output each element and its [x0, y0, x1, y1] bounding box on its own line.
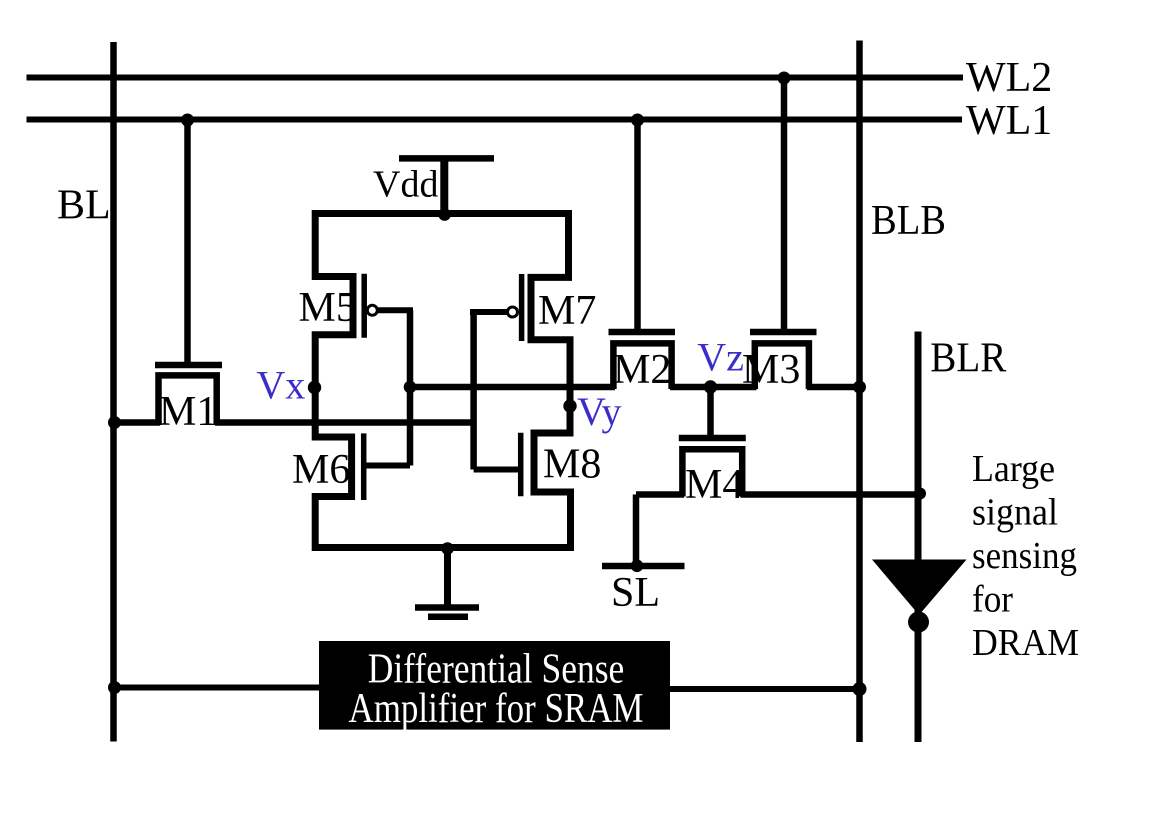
junction ground rail: [441, 542, 454, 555]
svg-text:SL: SL: [611, 570, 660, 616]
transistor M7 source lead from rail: [531, 210, 570, 391]
wire bottom left BL to box: [114, 685, 320, 691]
wire WL1 horizontal: [27, 117, 963, 123]
node Vx dot: [308, 381, 321, 394]
svg-text:WL2: WL2: [966, 55, 1052, 101]
svg-text:WL1: WL1: [966, 98, 1052, 144]
transistor M4 gate bar: [679, 435, 746, 441]
junction WL1 x M1 riser: [181, 114, 194, 127]
svg-text:BL: BL: [57, 182, 111, 228]
transistor M2 gate bar: [609, 329, 676, 335]
svg-text:for: for: [972, 579, 1013, 621]
wire SL stem vertical: [633, 495, 640, 567]
wire M6 gate lead: [363, 463, 410, 469]
wire M5/M6 gate riser: [407, 310, 414, 465]
junction WL2 x M3 riser: [778, 72, 791, 85]
transistor M2 channel: [613, 343, 671, 389]
transistor M3 gate bar: [750, 329, 817, 335]
svg-text:DRAM: DRAM: [972, 622, 1079, 664]
svg-text:BLR: BLR: [930, 336, 1006, 382]
wire BLB vertical: [856, 41, 863, 743]
ground bar 1: [415, 604, 479, 611]
wire M3 drain to BLB: [807, 384, 860, 391]
svg-text:M7: M7: [538, 288, 596, 334]
wire M2 gate riser from WL1: [634, 120, 641, 330]
wire M3 gate riser from WL2: [781, 78, 788, 330]
wire M5 gate lead: [378, 307, 414, 313]
node dot below triangle: [908, 612, 929, 633]
label box Differential Sense Amplifier for SRAM: [319, 641, 670, 730]
transistor M1 gate bar: [155, 362, 222, 368]
svg-text:M2: M2: [613, 347, 671, 393]
svg-text:sensing: sensing: [972, 535, 1077, 577]
svg-text:M8: M8: [543, 441, 601, 487]
wire bottom right box to BLB: [670, 686, 860, 692]
wire M4 gate stem from node Vz: [707, 387, 714, 436]
svg-text:M4: M4: [685, 462, 743, 508]
node Vz dot: [704, 380, 717, 393]
bubble M7 gate: [508, 307, 518, 317]
transistor M7 gate bar: [519, 274, 525, 341]
svg-text:Vy: Vy: [577, 389, 621, 434]
transistor M6 gate bar: [361, 433, 367, 500]
svg-text:Large: Large: [972, 448, 1055, 490]
node dot latch left input on riser: [404, 381, 417, 394]
svg-text:M6: M6: [292, 447, 350, 493]
svg-text:M3: M3: [742, 347, 800, 393]
wire ground stem: [444, 548, 451, 609]
wire M7 gate lead: [470, 309, 508, 315]
transistor M5 gate bar: [361, 274, 367, 338]
node Vy dot: [563, 399, 576, 412]
svg-text:Amplifier for SRAM: Amplifier for SRAM: [349, 686, 644, 732]
transistor M4 channel: [682, 449, 742, 496]
wire Vdd stem: [440, 158, 448, 213]
wire M1 gate riser from WL1: [184, 120, 191, 362]
svg-text:Vx: Vx: [256, 363, 305, 408]
junction SL bar: [631, 560, 644, 573]
junction BLB x bottom wire: [853, 682, 867, 696]
wire latch top rail: [312, 210, 571, 217]
wire BLR vertical: [915, 332, 922, 743]
op-amp U1 large-signal sense amp triangle on BLR: [872, 560, 967, 616]
junction Vdd x rail: [438, 208, 451, 221]
wire node Vx horizontal M1 drain to gates of M7/M8: [215, 419, 474, 426]
junction BL x M1 lead: [108, 416, 121, 429]
svg-text:signal: signal: [972, 492, 1058, 534]
wire Vy vertical M7 drain to M8 drain: [534, 388, 571, 551]
wire latch bottom rail: [312, 544, 572, 551]
svg-text:Vz: Vz: [697, 335, 744, 380]
wire node A horizontal latch input to M2 source: [410, 384, 615, 391]
transistor M1 channel: [159, 375, 217, 425]
junction BL x bottom wire: [108, 681, 121, 694]
transistor M3 channel: [755, 343, 809, 389]
wire WL2 horizontal: [27, 75, 964, 81]
wire M4 drain lead to BLR: [741, 491, 919, 498]
wire SL terminal bar: [602, 563, 685, 570]
wire node Vz horizontal M2 drain to M3 source: [670, 384, 757, 391]
wire M8 gate lead: [474, 467, 519, 473]
svg-text:BLB: BLB: [871, 198, 946, 244]
wire node Vx horizontal BL to M1 source: [114, 419, 161, 426]
svg-text:M1: M1: [159, 389, 217, 435]
junction BLB x M3 lead: [853, 381, 866, 394]
junction WL1 x M2 riser: [631, 114, 644, 127]
svg-text:Vdd: Vdd: [373, 164, 438, 206]
wire Vdd terminal bar: [399, 155, 494, 162]
transistor M5 source-drain path: [315, 210, 353, 391]
wire BL vertical: [110, 42, 117, 742]
wire M4 source lead to SL stem: [636, 491, 684, 498]
transistor M8 gate bar: [518, 433, 524, 496]
wire M7/M8 gate riser: [470, 312, 477, 470]
bubble M5 gate: [367, 305, 377, 315]
ground bar 2: [428, 614, 468, 621]
junction BLR x M4 lead: [914, 488, 926, 500]
svg-text:M5: M5: [299, 285, 357, 331]
wire Vx vertical M5 drain to M6 drain: [315, 388, 351, 551]
